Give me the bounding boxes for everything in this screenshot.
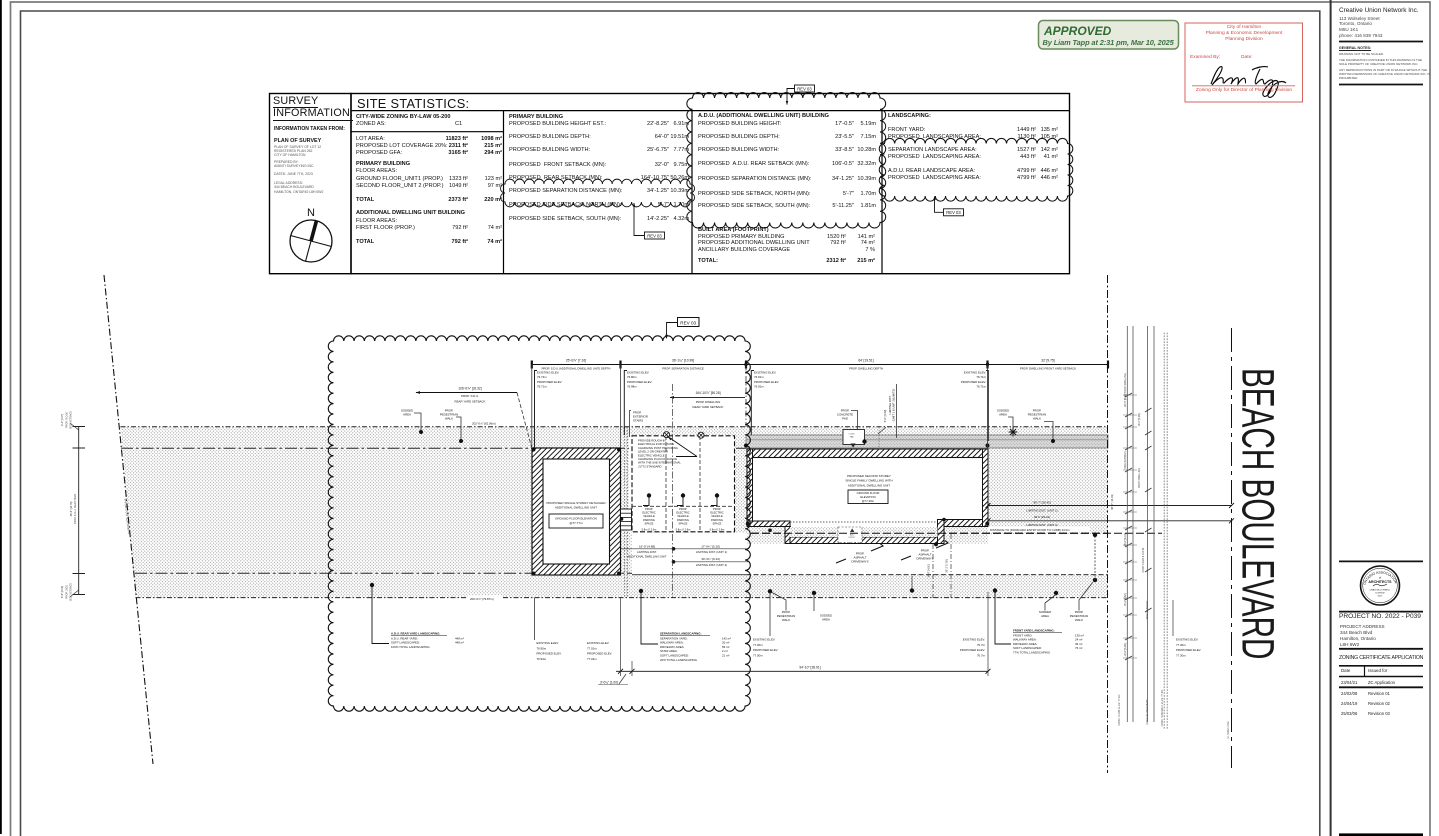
svg-text:SIDE SETBACK: SIDE SETBACK bbox=[1124, 451, 1127, 469]
svg-text:AREA: AREA bbox=[999, 413, 1007, 417]
svg-text:15'-2" [4.62]: 15'-2" [4.62] bbox=[1124, 593, 1127, 606]
dash-dot upper bbox=[121, 447, 746, 449]
primary building left wall bbox=[747, 449, 753, 521]
svg-text:106'-0⅞" [32.32]: 106'-0⅞" [32.32] bbox=[458, 386, 481, 390]
separation landscaping block bbox=[639, 589, 643, 593]
svg-text:16'-0" [4.88]: 16'-0" [4.88] bbox=[639, 545, 655, 549]
page frame: left black strip bbox=[0, 0, 2, 834]
rule 6 bbox=[1339, 665, 1423, 667]
svg-text:76.7m: 76.7m bbox=[977, 653, 986, 657]
REV 03 tag above ADU cloud bbox=[795, 85, 815, 92]
ADU entry distance dashed line bbox=[751, 532, 1162, 534]
vertical dash leaders mid bbox=[672, 384, 674, 598]
svg-text:N: N bbox=[307, 207, 315, 219]
rule 3 bbox=[1339, 560, 1423, 562]
wall bottom-left bbox=[747, 521, 790, 527]
svg-text:76.90m: 76.90m bbox=[537, 646, 547, 650]
svg-text:PROPOSED ELEV.: PROPOSED ELEV. bbox=[754, 380, 779, 384]
svg-text:SIDE SETBACK: SIDE SETBACK bbox=[70, 411, 73, 430]
road dim chain A bbox=[1126, 326, 1128, 722]
REV 03 tag landscaping bbox=[944, 209, 964, 216]
svg-text:16'-4" [4.98]: 16'-4" [4.98] bbox=[1138, 413, 1141, 426]
svg-text:PROP. DWELLING: PROP. DWELLING bbox=[696, 400, 721, 404]
svg-text:AREA: AREA bbox=[822, 618, 830, 622]
svg-text:PROP. DWELLING FRONT YARD SETB: PROP. DWELLING FRONT YARD SETBACK bbox=[1020, 367, 1076, 371]
extension lines bbox=[531, 365, 533, 449]
band bottom edge bbox=[136, 597, 1109, 599]
ADU corner dots bbox=[532, 448, 536, 452]
property line west slanted bbox=[104, 275, 153, 764]
svg-text:REV 03: REV 03 bbox=[647, 233, 662, 238]
svg-text:PROPOSED SECOND STOREY: PROPOSED SECOND STOREY bbox=[847, 474, 891, 478]
svg-text:164'-10⅞" [50.26]: 164'-10⅞" [50.26] bbox=[696, 391, 721, 395]
svg-text:WALK: WALK bbox=[782, 618, 790, 622]
big revision cloud around site bbox=[328, 336, 750, 711]
svg-text:5'-0" [1.52]: 5'-0" [1.52] bbox=[883, 410, 887, 423]
sodded bottom right bbox=[1054, 591, 1058, 595]
svg-text:(UNIT 1 & UNIT 2)(LIMITS): (UNIT 1 & UNIT 2)(LIMITS) bbox=[892, 389, 896, 422]
svg-text:CL ROAD LINE: CL ROAD LINE bbox=[1227, 721, 1230, 739]
svg-text:AREA: AREA bbox=[403, 413, 411, 417]
EV charger symbols bbox=[664, 432, 670, 438]
svg-text:LIMITING DIST. (UNIT 1): LIMITING DIST. (UNIT 1) bbox=[696, 550, 727, 554]
vertical dash dim leaders under building bbox=[932, 544, 934, 598]
rule 2 bbox=[1339, 84, 1423, 86]
svg-text:SPACE: SPACE bbox=[679, 521, 688, 525]
road dim chain B bbox=[1147, 326, 1149, 722]
sidewalk dotted double line bbox=[1163, 333, 1165, 730]
sodded bottom left bbox=[812, 591, 816, 595]
svg-text:PAD: PAD bbox=[850, 435, 855, 438]
svg-text:VEHICLE: VEHICLE bbox=[643, 514, 655, 518]
ADU entry dashed box bbox=[838, 527, 862, 543]
svg-text:PAD: PAD bbox=[842, 417, 848, 421]
primary building right wall bbox=[983, 449, 989, 527]
svg-text:202'-0⅞" [62.06m]: 202'-0⅞" [62.06m] bbox=[472, 422, 496, 426]
rule 5 bbox=[1339, 648, 1423, 650]
north arrow bbox=[290, 220, 332, 262]
approved stamp bbox=[1039, 21, 1179, 50]
svg-text:CRAIG McCONNELL: CRAIG McCONNELL bbox=[1370, 589, 1392, 592]
svg-text:ELECTRIC: ELECTRIC bbox=[710, 511, 723, 515]
concrete walk gray strip bbox=[746, 435, 1108, 448]
svg-text:FRONT YARD LANDSCAPING:: FRONT YARD LANDSCAPING: bbox=[1013, 629, 1055, 633]
road centerline bbox=[1231, 328, 1233, 768]
revision cloud landscaping bbox=[879, 138, 1073, 201]
hamilton stamp bbox=[1185, 23, 1303, 102]
svg-text:76.80m: 76.80m bbox=[627, 375, 637, 379]
limiting dist lines bbox=[988, 505, 1232, 507]
svg-text:76.91m: 76.91m bbox=[754, 385, 764, 389]
ADU side dotted verticals bbox=[624, 427, 626, 598]
svg-text:PARKING: PARKING bbox=[677, 518, 689, 522]
REV 03 tag col2 bbox=[645, 232, 665, 239]
svg-text:PROPOSED ELEV.: PROPOSED ELEV. bbox=[537, 652, 562, 656]
ADU entry marker bbox=[850, 528, 854, 532]
svg-text:5.8m X 2.6m: 5.8m X 2.6m bbox=[642, 528, 657, 532]
svg-text:20% TOTAL LANDSCAPING: 20% TOTAL LANDSCAPING bbox=[660, 658, 698, 662]
svg-text:10'-0" [3.05]: 10'-0" [3.05] bbox=[1124, 643, 1127, 656]
svg-text:PROPOSED SINGLE STOREY DETACHE: PROPOSED SINGLE STOREY DETACHED bbox=[546, 501, 606, 505]
main top dimension line bbox=[532, 364, 1108, 366]
signature bbox=[1211, 67, 1286, 98]
svg-text:PROP. DWELLING DEPTH: PROP. DWELLING DEPTH bbox=[849, 367, 883, 371]
parking area white cutout bbox=[629, 436, 735, 533]
svg-text:CONC. SIDEWALK ELEV. 77.3m: CONC. SIDEWALK ELEV. 77.3m bbox=[1161, 690, 1164, 727]
slant extension to ADU corner bbox=[517, 393, 532, 448]
svg-text:SPACE: SPACE bbox=[713, 521, 722, 525]
svg-text:PROP. SEPARATION DISTANCE: PROP. SEPARATION DISTANCE bbox=[662, 367, 704, 371]
svg-text:BEACH BOULEVARD: BEACH BOULEVARD bbox=[1232, 368, 1283, 659]
col1 zoning subline bbox=[351, 131, 504, 133]
svg-text:DRIVEWAYS: DRIVEWAYS bbox=[851, 560, 868, 564]
svg-text:48'-6" [14.78]: 48'-6" [14.78] bbox=[70, 501, 73, 516]
200ft dim text bbox=[468, 596, 502, 601]
svg-text:76.71m: 76.71m bbox=[537, 385, 547, 389]
svg-text:ADDITIONAL DWELLING UNIT: ADDITIONAL DWELLING UNIT bbox=[555, 506, 597, 510]
revision cloud around separation distance row (col2) bbox=[501, 179, 695, 207]
svg-text:PROPOSED ELEV.: PROPOSED ELEV. bbox=[1176, 648, 1201, 652]
svg-text:EXISTING ELEV.: EXISTING ELEV. bbox=[754, 371, 776, 375]
svg-text:64' [19.51]: 64' [19.51] bbox=[858, 358, 873, 362]
wall bottom-right bbox=[944, 520, 983, 527]
svg-text:76 m²: 76 m² bbox=[1075, 646, 1082, 650]
svg-text:PROP. SIDE: PROP. SIDE bbox=[66, 585, 69, 599]
pedestrian walk bottom left bbox=[768, 589, 772, 593]
svg-text:6'-8" [2.03]: 6'-8" [2.03] bbox=[61, 586, 64, 598]
svg-text:PROPOSED ELEV.: PROPOSED ELEV. bbox=[961, 380, 986, 384]
ADU building outer bbox=[532, 448, 621, 575]
rule 7 bbox=[1339, 676, 1423, 678]
svg-text:PROPOSED ELEV.: PROPOSED ELEV. bbox=[627, 380, 652, 384]
REV 03 tag drawing bbox=[678, 318, 700, 327]
svg-text:LIMITING DIST. (UNIT 2): LIMITING DIST. (UNIT 2) bbox=[696, 563, 727, 567]
svg-text:SPACE: SPACE bbox=[645, 521, 654, 525]
svg-text:100% TOTAL LANDSCAPING: 100% TOTAL LANDSCAPING bbox=[391, 645, 430, 649]
ADU building inner bbox=[543, 459, 610, 564]
dash-dot lower bbox=[135, 572, 746, 574]
svg-text:94'-10" [28.91]: 94'-10" [28.91] bbox=[799, 666, 820, 670]
primary building top wall bbox=[747, 449, 988, 458]
svg-text:PARKING: PARKING bbox=[643, 518, 655, 522]
svg-text:WALK: WALK bbox=[1075, 618, 1083, 622]
site statistics header underline bbox=[351, 110, 1070, 112]
svg-text:77.30m: 77.30m bbox=[1176, 643, 1186, 647]
ADU driveway white area bbox=[632, 533, 747, 575]
svg-text:32' [9.75]: 32' [9.75] bbox=[1041, 358, 1055, 362]
svg-text:86'-7" [26.40]: 86'-7" [26.40] bbox=[1033, 500, 1050, 504]
svg-text:SIDE OF TRACK: SIDE OF TRACK bbox=[1146, 600, 1149, 619]
walk dot mid bbox=[910, 588, 914, 592]
adu rear yard landscaping bbox=[370, 583, 374, 587]
svg-text:PROP. DWELLING: PROP. DWELLING bbox=[1138, 468, 1141, 488]
svg-text:PROP. A.D.U. REAR YARD: PROP. A.D.U. REAR YARD bbox=[74, 494, 77, 525]
bottom dimension line 94ft bbox=[616, 670, 988, 672]
left dim assembly bbox=[78, 426, 80, 595]
ped walk bottom right bbox=[1093, 578, 1097, 582]
svg-text:AREA: AREA bbox=[1041, 614, 1049, 618]
svg-text:ELECTRIC: ELECTRIC bbox=[676, 511, 689, 515]
svg-text:EXISTING ELEV.: EXISTING ELEV. bbox=[537, 641, 559, 645]
svg-text:PROP. R.O.W.: PROP. R.O.W. bbox=[66, 412, 69, 429]
svg-text:SEPARATION LANDSCAPING:: SEPARATION LANDSCAPING: bbox=[660, 632, 702, 636]
svg-text:PROP.: PROP. bbox=[679, 507, 687, 511]
svg-text:76.91m: 76.91m bbox=[754, 375, 764, 379]
interior walkway stipple bbox=[790, 527, 938, 537]
svg-text:ENTRY: ENTRY bbox=[849, 537, 856, 539]
svg-text:WALK: WALK bbox=[1033, 417, 1041, 421]
svg-text:EXISTING ELEV.: EXISTING ELEV. bbox=[1176, 638, 1198, 642]
svg-text:GROUND FLOOR ELEVATION: GROUND FLOOR ELEVATION bbox=[555, 517, 597, 521]
svg-text:26'-3" [8.00] PROP. DWELLING: 26'-3" [8.00] PROP. DWELLING bbox=[1124, 373, 1127, 407]
svg-text:LIMITING DIST. (UNIT 1): LIMITING DIST. (UNIT 1) bbox=[1026, 508, 1057, 512]
svg-text:20'-0" [6.10]: 20'-0" [6.10] bbox=[1124, 533, 1127, 546]
svg-text:EXISTING ELEV.: EXISTING ELEV. bbox=[964, 371, 986, 375]
svg-text:SINGLE FAMILY DWELLING WITH: SINGLE FAMILY DWELLING WITH bbox=[845, 479, 892, 483]
driveway white B bbox=[988, 535, 1108, 575]
svg-text:17'-0¾" [5.20]: 17'-0¾" [5.20] bbox=[701, 545, 720, 549]
svg-text:CONC.: CONC. bbox=[849, 434, 856, 436]
survey information box bbox=[270, 94, 352, 274]
exterior stairs bbox=[621, 509, 632, 530]
svg-text:21 m²: 21 m² bbox=[722, 654, 729, 658]
wall bottom-main bbox=[790, 537, 944, 544]
svg-text:PROP.: PROP. bbox=[645, 507, 653, 511]
svg-text:PROP.: PROP. bbox=[713, 507, 721, 511]
title block bottom black bar bbox=[1339, 833, 1423, 836]
svg-text:@77.29m: @77.29m bbox=[862, 499, 875, 503]
band top edge bbox=[121, 426, 1109, 428]
svg-text:STAIRS: STAIRS bbox=[633, 419, 643, 423]
svg-text:PROP. S.D.U.: PROP. S.D.U. bbox=[461, 394, 479, 398]
svg-text:EXISTING ELEV.: EXISTING ELEV. bbox=[537, 371, 559, 375]
ADU elevation box bbox=[549, 514, 603, 528]
svg-text:REAR YARD SETBACK: REAR YARD SETBACK bbox=[455, 399, 486, 403]
lot stipple band bbox=[121, 427, 1109, 598]
svg-text:EXISTING ELEV.: EXISTING ELEV. bbox=[963, 638, 985, 642]
bollards bbox=[647, 493, 651, 497]
svg-text:96.6' [29.44]: 96.6' [29.44] bbox=[1034, 515, 1050, 519]
rule 4 bbox=[1339, 611, 1423, 613]
building corner dots bbox=[746, 522, 750, 526]
title block left edge bbox=[1330, 0, 1332, 836]
svg-text:46'-0" [14.03]: 46'-0" [14.03] bbox=[1110, 494, 1114, 510]
svg-text:76.74m: 76.74m bbox=[537, 375, 547, 379]
limiting dist rotated bbox=[896, 384, 898, 438]
svg-text:of: of bbox=[1379, 576, 1381, 580]
parking dashed rect bbox=[632, 436, 735, 532]
wall step left bbox=[785, 527, 791, 544]
EV note arrow bbox=[667, 436, 697, 457]
svg-text:PROPOSED ELEV.: PROPOSED ELEV. bbox=[753, 648, 778, 652]
svg-text:A.D.U. REAR YARD LANDSCAPING:: A.D.U. REAR YARD LANDSCAPING: bbox=[391, 632, 440, 636]
svg-text:5071: 5071 bbox=[1378, 596, 1384, 598]
OAA seal bbox=[1361, 566, 1400, 605]
primary building footprint bbox=[747, 449, 988, 544]
svg-text:25'-0⅞" [7.16]: 25'-0⅞" [7.16] bbox=[566, 358, 586, 362]
svg-text:LIMITING DIST.: LIMITING DIST. bbox=[888, 395, 892, 414]
svg-text:DISTANCE TO (FROM ADU ENTRY DO: DISTANCE TO (FROM ADU ENTRY DOOR TO CURB… bbox=[990, 528, 1070, 532]
svg-text:LICENCE: LICENCE bbox=[1375, 593, 1385, 595]
svg-text:4'-2" [1.27]: 4'-2" [1.27] bbox=[61, 414, 64, 426]
site statistics box bbox=[351, 94, 1070, 274]
svg-text:REV 03: REV 03 bbox=[797, 86, 812, 91]
svg-text:ARCHITECTS: ARCHITECTS bbox=[1368, 580, 1392, 584]
svg-text:VEHICLE: VEHICLE bbox=[711, 514, 723, 518]
svg-text:EDGE OF PAVEMENT: EDGE OF PAVEMENT bbox=[1146, 699, 1149, 725]
svg-text:REV 03: REV 03 bbox=[946, 210, 961, 215]
svg-text:5.8m X 2.6m: 5.8m X 2.6m bbox=[676, 528, 691, 532]
interior dotted walk line bbox=[790, 521, 937, 523]
svg-text:@77.77m: @77.77m bbox=[569, 521, 583, 525]
svg-text:14'-9" [4.50]: 14'-9" [4.50] bbox=[928, 564, 931, 578]
svg-text:36'-1¼" [10.99]: 36'-1¼" [10.99] bbox=[672, 358, 694, 362]
svg-text:76.71m: 76.71m bbox=[976, 375, 986, 379]
svg-text:VEHICLE: VEHICLE bbox=[677, 514, 689, 518]
wall step right bbox=[938, 520, 945, 544]
svg-text:PROPOSED ELEV.: PROPOSED ELEV. bbox=[587, 652, 612, 656]
svg-text:PARKING: PARKING bbox=[711, 518, 723, 522]
svg-text:76.7m: 76.7m bbox=[977, 643, 986, 647]
driveway dashed edge bbox=[746, 574, 1108, 576]
svg-text:77.02m: 77.02m bbox=[587, 646, 597, 650]
svg-text:76.98m: 76.98m bbox=[627, 385, 637, 389]
front yard landscaping block bbox=[993, 588, 997, 592]
front lot line bbox=[1107, 275, 1109, 773]
svg-text:448 m²: 448 m² bbox=[455, 641, 464, 645]
svg-text:3'-0¼" [1.00]: 3'-0¼" [1.00] bbox=[600, 681, 618, 685]
svg-text:WALK: WALK bbox=[445, 417, 453, 421]
svg-text:ADDITIONAL DWELLING UNIT: ADDITIONAL DWELLING UNIT bbox=[627, 554, 667, 558]
svg-text:77.00m: 77.00m bbox=[753, 653, 763, 657]
svg-text:LIMITING DIST.: LIMITING DIST. bbox=[637, 550, 657, 554]
svg-text:76.94m: 76.94m bbox=[537, 657, 547, 661]
svg-text:EXISTING ELEV.: EXISTING ELEV. bbox=[753, 638, 775, 642]
elevation box primary bbox=[848, 490, 888, 504]
svg-text:LIMITING DIST. (UNIT 2): LIMITING DIST. (UNIT 2) bbox=[1026, 523, 1057, 527]
svg-text:REV 03: REV 03 bbox=[680, 320, 696, 325]
svg-text:77.00m: 77.00m bbox=[753, 643, 763, 647]
svg-text:77.04m: 77.04m bbox=[587, 657, 597, 661]
rule 8 thick bbox=[1339, 686, 1423, 688]
svg-text:77.30m: 77.30m bbox=[1176, 653, 1186, 657]
driveway white A bbox=[746, 544, 988, 575]
svg-text:PROP. CURB & R.O.W.: PROP. CURB & R.O.W. bbox=[1142, 547, 1145, 573]
svg-text:200'-0⅞" [79.87m]: 200'-0⅞" [79.87m] bbox=[470, 597, 494, 601]
svg-text:77% TOTAL LANDSCAPING: 77% TOTAL LANDSCAPING bbox=[1013, 651, 1051, 655]
column dividers bbox=[503, 111, 505, 274]
svg-text:REAR YARD SETBACK: REAR YARD SETBACK bbox=[693, 405, 724, 409]
svg-text:ELECTRIC: ELECTRIC bbox=[642, 511, 655, 515]
svg-text:CONC. CURB ELEV. 77.1m: CONC. CURB ELEV. 77.1m bbox=[1118, 694, 1121, 725]
svg-text:EXISTING ELEV.: EXISTING ELEV. bbox=[587, 641, 609, 645]
svg-text:SIDE SETBACK: SIDE SETBACK bbox=[70, 583, 73, 602]
svg-text:30'-3¾" [9.24]: 30'-3¾" [9.24] bbox=[701, 557, 720, 561]
svg-text:PROPOSED ELEV.: PROPOSED ELEV. bbox=[960, 648, 985, 652]
distance dashed line over walkway bbox=[751, 532, 1108, 534]
svg-text:PROPOSED ELEV.: PROPOSED ELEV. bbox=[537, 380, 562, 384]
SDU rear yard setback arrow bbox=[416, 392, 517, 394]
svg-text:ADDITIONAL DWELLING UNIT: ADDITIONAL DWELLING UNIT bbox=[848, 483, 890, 487]
dwelling rear yard setback arrow bbox=[670, 396, 745, 398]
svg-text:76.71m: 76.71m bbox=[976, 385, 986, 389]
revision cloud ADU column bbox=[687, 92, 886, 228]
table divider bbox=[1364, 666, 1366, 677]
elev label bottom 1 bbox=[534, 598, 536, 640]
svg-text:EXISTING ELEV.: EXISTING ELEV. bbox=[627, 371, 649, 375]
parking space dividers bbox=[665, 436, 667, 532]
svg-text:J1772 STANDARD: J1772 STANDARD bbox=[638, 464, 662, 468]
svg-text:DRIVEWAYS: DRIVEWAYS bbox=[916, 557, 933, 561]
svg-text:5.8m X 2.6m: 5.8m X 2.6m bbox=[710, 528, 725, 532]
rule 1 bbox=[1339, 41, 1423, 43]
svg-text:26'-1" [7.95]: 26'-1" [7.95] bbox=[946, 559, 949, 573]
